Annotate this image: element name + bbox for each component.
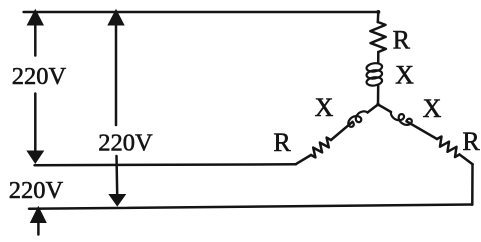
svg-text:220V: 220V <box>98 130 153 157</box>
svg-text:X: X <box>423 94 442 123</box>
svg-text:R: R <box>273 128 291 157</box>
svg-text:220V: 220V <box>12 63 67 90</box>
svg-text:220V: 220V <box>9 177 64 204</box>
svg-text:X: X <box>395 61 414 90</box>
svg-text:R: R <box>462 127 480 156</box>
svg-text:R: R <box>393 26 411 55</box>
svg-text:X: X <box>315 93 334 122</box>
